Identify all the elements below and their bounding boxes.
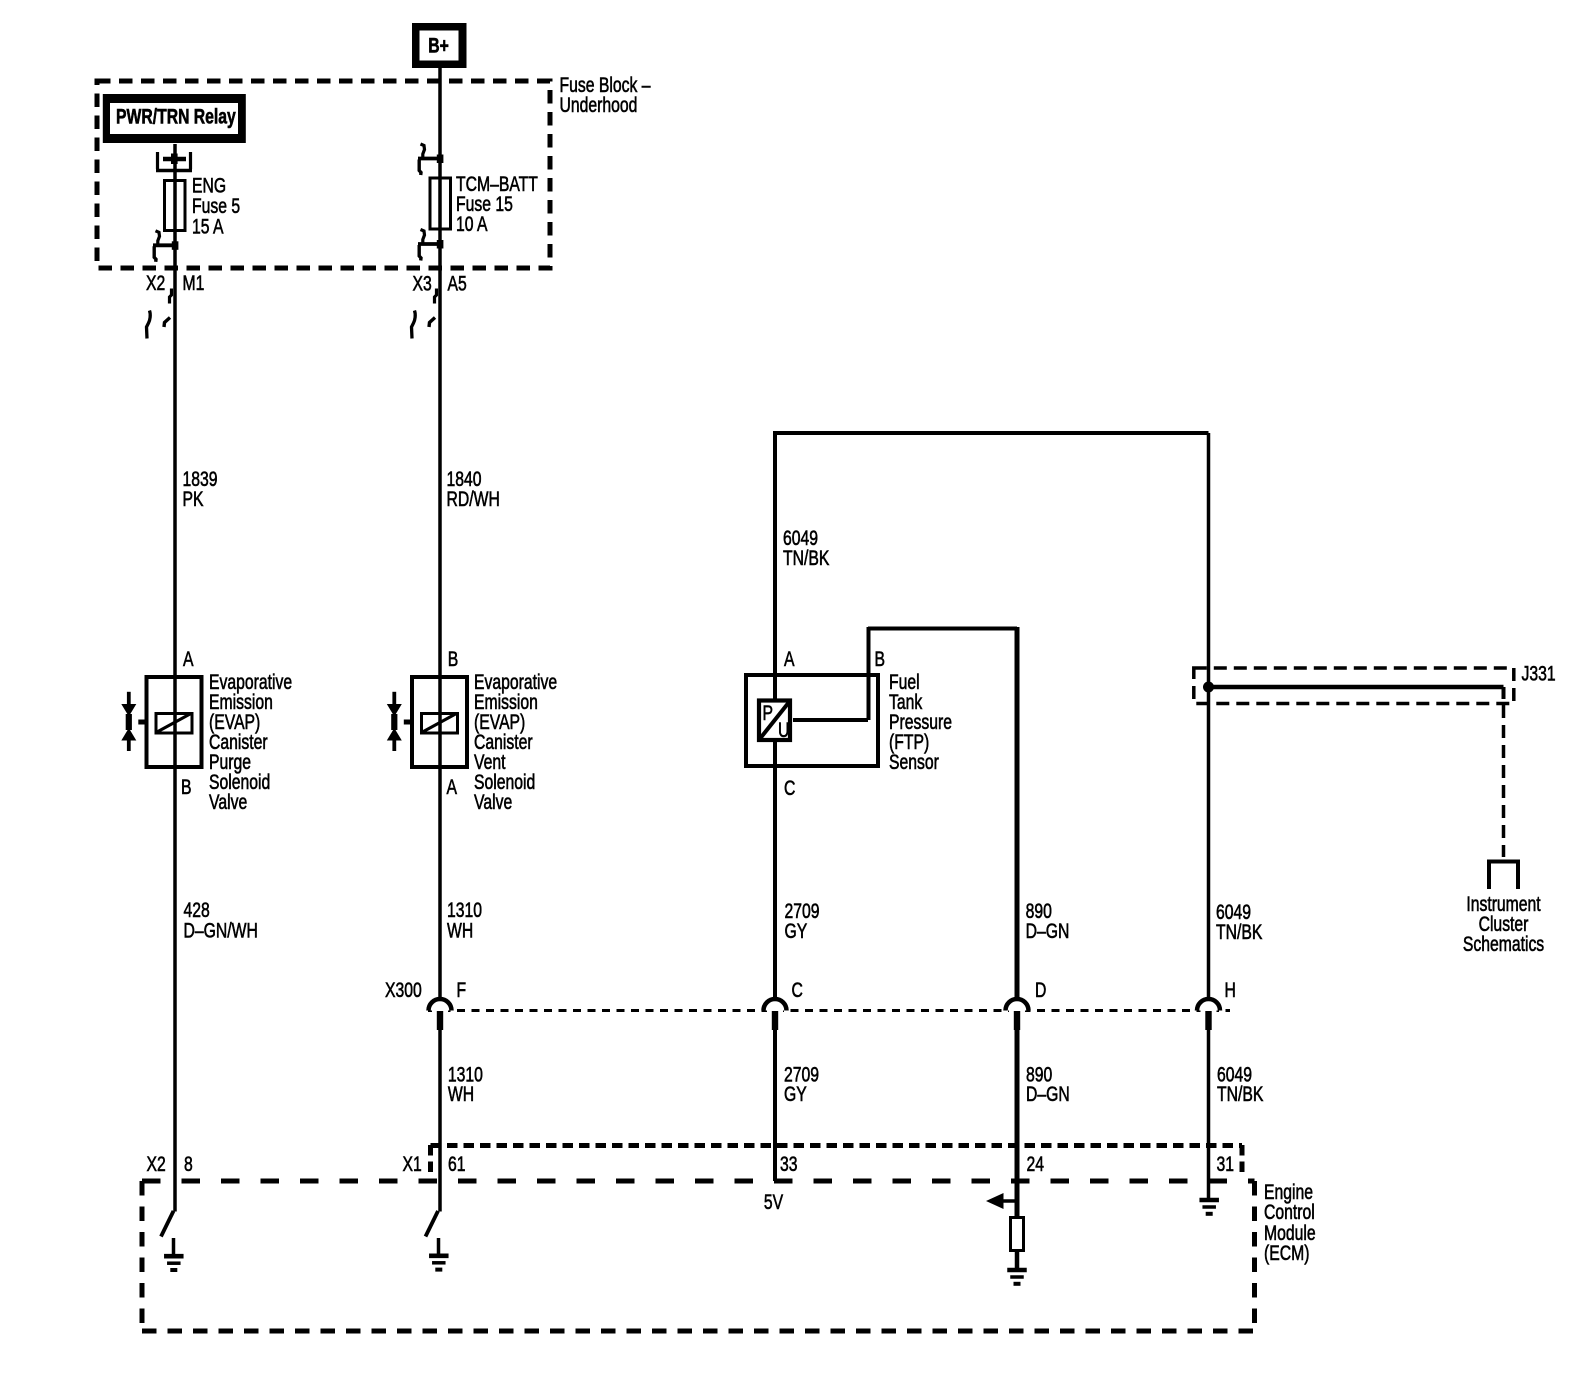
svg-text:33: 33 — [780, 1152, 798, 1176]
svg-text:61: 61 — [448, 1152, 466, 1176]
svg-text:X300: X300 — [385, 978, 422, 1002]
svg-text:GY: GY — [785, 919, 808, 943]
svg-text:H: H — [1225, 978, 1236, 1002]
svg-text:15 A: 15 A — [192, 214, 224, 238]
svg-text:(ECM): (ECM) — [1264, 1241, 1309, 1265]
svg-text:B: B — [448, 647, 459, 671]
svg-text:10 A: 10 A — [456, 212, 488, 236]
svg-text:Underhood: Underhood — [560, 93, 638, 117]
svg-text:C: C — [792, 978, 803, 1002]
svg-text:WH: WH — [447, 918, 473, 942]
svg-text:Schematics: Schematics — [1463, 932, 1544, 956]
svg-text:PWR/TRN Relay: PWR/TRN Relay — [116, 104, 236, 128]
svg-text:X3: X3 — [413, 271, 432, 295]
svg-text:F: F — [457, 978, 467, 1002]
svg-text:8: 8 — [184, 1152, 193, 1176]
svg-text:A5: A5 — [448, 271, 467, 295]
svg-text:X2: X2 — [146, 271, 165, 295]
svg-text:TN/BK: TN/BK — [1216, 920, 1263, 944]
svg-text:TN/BK: TN/BK — [1217, 1082, 1264, 1106]
svg-text:P: P — [763, 701, 774, 725]
svg-text:24: 24 — [1027, 1152, 1045, 1176]
svg-text:B: B — [181, 775, 192, 799]
svg-text:D: D — [1035, 978, 1046, 1002]
svg-text:M1: M1 — [183, 271, 205, 295]
svg-text:WH: WH — [448, 1082, 474, 1106]
svg-text:X1: X1 — [403, 1152, 422, 1176]
svg-text:X2: X2 — [147, 1152, 166, 1176]
svg-text:Valve: Valve — [209, 790, 247, 814]
svg-text:PK: PK — [183, 487, 205, 511]
svg-text:B+: B+ — [428, 33, 449, 57]
svg-text:TN/BK: TN/BK — [783, 546, 830, 570]
svg-text:RD/WH: RD/WH — [447, 487, 500, 511]
svg-text:D–GN/WH: D–GN/WH — [184, 918, 258, 942]
svg-text:D–GN: D–GN — [1026, 919, 1070, 943]
svg-text:U: U — [778, 718, 789, 742]
svg-text:31: 31 — [1217, 1152, 1235, 1176]
svg-text:Valve: Valve — [474, 790, 512, 814]
svg-text:Sensor: Sensor — [889, 750, 939, 774]
svg-text:A: A — [183, 647, 194, 671]
svg-text:GY: GY — [784, 1082, 807, 1106]
svg-text:5V: 5V — [764, 1190, 784, 1214]
svg-text:A: A — [447, 775, 458, 799]
svg-text:B: B — [875, 647, 886, 671]
svg-text:A: A — [784, 647, 795, 671]
svg-text:J331: J331 — [1522, 661, 1556, 685]
svg-text:C: C — [784, 776, 795, 800]
svg-text:D–GN: D–GN — [1026, 1082, 1070, 1106]
